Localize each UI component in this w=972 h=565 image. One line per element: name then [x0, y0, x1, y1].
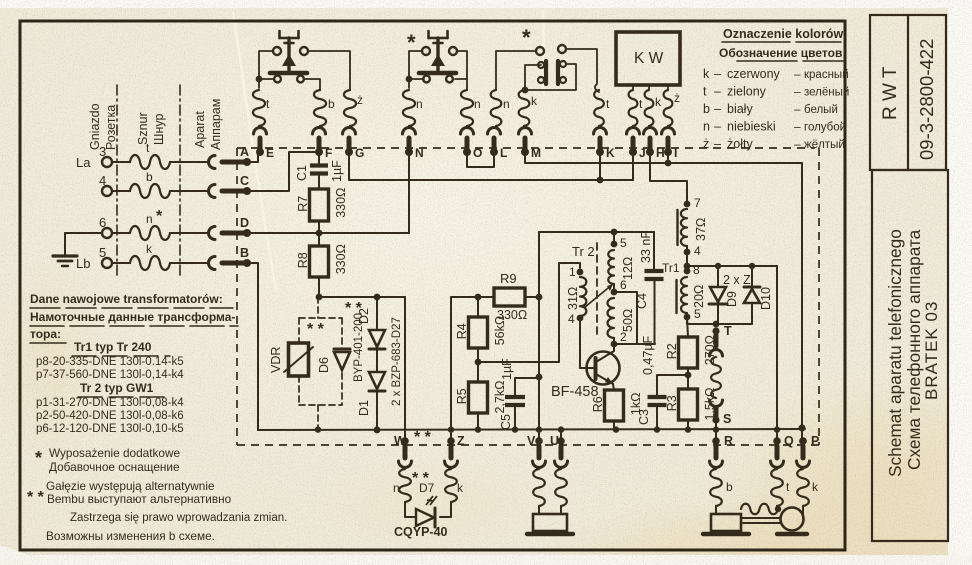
dashed apparatus boundary bottom [237, 444, 822, 446]
wire R4R5 junction to Tr2 pin1 [478, 263, 580, 362]
connector pin O [461, 128, 474, 135]
Tr1 pin7 [684, 201, 691, 208]
svg-text:–: – [714, 120, 721, 134]
wire left riser to Z [451, 297, 494, 441]
cord coil n at pin x=409 [403, 90, 415, 126]
svg-text:Шнур: Шнур [152, 114, 166, 145]
handset cord wavy [741, 504, 778, 514]
svg-text:C3: C3 [637, 409, 651, 425]
svg-text:N: N [415, 146, 424, 160]
svg-text:D6: D6 [317, 357, 331, 373]
svg-text:J: J [639, 146, 646, 160]
svg-text:31Ω: 31Ω [566, 287, 580, 310]
svg-text:56kΩ: 56kΩ [493, 316, 507, 346]
svg-text:A: A [240, 145, 249, 159]
svg-text:n: n [474, 97, 481, 111]
wire button right to coil t4 [566, 49, 599, 92]
svg-text:белый: белый [804, 104, 838, 116]
Tr2 winding pin6 [611, 289, 618, 296]
cord under U [555, 469, 567, 506]
cord b (line cord) [130, 184, 170, 198]
svg-text:Z: Z [457, 434, 465, 448]
svg-text:p7-37-560-DNE 130l-0,14-k4: p7-37-560-DNE 130l-0,14-k4 [36, 369, 184, 381]
svg-text:4: 4 [99, 173, 106, 188]
svg-text:t: t [703, 85, 707, 99]
dial box [538, 506, 540, 514]
wire A to E [247, 155, 258, 162]
schematic border frame [20, 21, 845, 550]
ringer KW box [616, 32, 680, 85]
plug pin D [243, 229, 251, 237]
svg-text:Q: Q [784, 434, 794, 448]
svg-text:Lb: Lb [76, 256, 90, 271]
capacitor C1 [318, 152, 320, 164]
wire zener bottoms to T [716, 323, 752, 325]
Tr1 winding 20R core [675, 280, 677, 313]
connector pin W [401, 437, 409, 445]
svg-text:Bembu выступают альтернативн: Bembu выступают альтернативно [47, 492, 232, 506]
cord t under Q [771, 469, 783, 506]
svg-text:n: n [503, 97, 510, 111]
connector pin K [594, 128, 607, 135]
cord T to S [711, 357, 721, 398]
plug pin B [243, 259, 251, 267]
svg-text:20Ω: 20Ω [692, 285, 706, 308]
svg-text:–: – [794, 67, 801, 81]
svg-text:D10: D10 [759, 287, 773, 310]
cord coil t at pin x=633 [629, 90, 638, 126]
wire pin6 bypass [614, 292, 637, 344]
svg-text:n: n [393, 481, 400, 495]
lower common rail [258, 429, 805, 430]
svg-text:niebieski: niebieski [727, 120, 776, 134]
connector pin I [662, 128, 675, 135]
wire V riser [538, 232, 540, 441]
wire S2 left contact to node [409, 51, 422, 74]
connector pin Z [447, 437, 455, 445]
Tr1 winding 37R [681, 209, 687, 246]
diode rail [687, 265, 777, 267]
button contact bars [544, 61, 548, 84]
svg-text:Аппарам: Аппарам [209, 99, 223, 150]
svg-text:BYP-401-200: BYP-401-200 [353, 313, 365, 382]
svg-text:Dane nawojowe transformatoró: Dane nawojowe transformatorów: [30, 292, 223, 306]
svg-text:p1-31-270-DNE 130l-0,08-k4: p1-31-270-DNE 130l-0,08-k4 [36, 397, 184, 409]
zener diode D2 [369, 330, 385, 347]
svg-text:D1: D1 [357, 400, 371, 416]
cord under V [533, 469, 545, 506]
wire S1 bar to coil b [305, 79, 320, 90]
connector pin P [799, 437, 807, 445]
svg-text:2 x BZP-683-D27: 2 x BZP-683-D27 [391, 317, 403, 406]
wire U riser [560, 429, 562, 441]
microphone [781, 508, 804, 531]
svg-text:ż: ż [357, 93, 363, 107]
svg-text:R W T: R W T [880, 66, 901, 120]
wire KW to coil k2 [648, 85, 650, 90]
wire KW to coil z2 [667, 85, 669, 90]
svg-text:зелёный: зелёный [804, 87, 849, 99]
svg-text:R6: R6 [591, 396, 605, 412]
svg-text:12Ω: 12Ω [621, 257, 635, 280]
wire k coil to M pin [523, 126, 525, 128]
connector socket row 3 [209, 156, 216, 169]
svg-text:2,7kΩ: 2,7kΩ [493, 381, 507, 414]
svg-text:–: – [794, 85, 801, 99]
svg-text:Добавочное оснащение: Добавочное оснащение [49, 460, 180, 474]
svg-text:C: C [240, 174, 249, 188]
svg-text:37Ω: 37Ω [694, 218, 708, 241]
svg-text:–: – [794, 102, 801, 116]
svg-text:K W: K W [634, 50, 664, 67]
resistor R2 [687, 317, 688, 337]
svg-text:b: b [703, 102, 710, 116]
svg-text:2 x Z: 2 x Z [723, 273, 751, 287]
svg-text:V: V [527, 434, 536, 448]
wire D2 branch [376, 297, 378, 330]
plug pin A [243, 158, 251, 166]
svg-text:n: n [416, 97, 423, 111]
svg-text:7: 7 [694, 196, 701, 210]
Tr1 pin5 [684, 314, 691, 321]
svg-text:Schemat aparatu telefonicznego: Schemat aparatu telefonicznego [885, 229, 905, 477]
wire S to R [715, 429, 717, 441]
svg-text:k: k [655, 95, 662, 109]
svg-text:Схема телефонного аппарата: Схема телефонного аппарата [904, 229, 924, 470]
resistor R7 [318, 174, 320, 189]
svg-text:biały: biały [727, 102, 753, 116]
wire K down [599, 152, 601, 180]
svg-text:5: 5 [99, 245, 106, 260]
svg-text:G: G [355, 146, 364, 160]
svg-text:k: k [146, 242, 153, 256]
svg-text:Намоточные данные трансформа: Намоточные данные трансформа- [30, 310, 235, 324]
dashed optional branch wiring [317, 297, 319, 318]
svg-text:k: k [457, 481, 464, 495]
wire B to lower rail [247, 263, 258, 430]
cord coil t at pin x=259 [253, 90, 265, 126]
cord coil b at pin x=320 [314, 90, 326, 126]
svg-text:b: b [726, 480, 733, 494]
svg-text:R4: R4 [455, 323, 469, 339]
svg-text:* *: * * [307, 321, 325, 338]
cord coil n at pin x=467 [461, 90, 473, 126]
cord coil k at pin x=649 [645, 90, 654, 126]
svg-text:I: I [674, 146, 677, 160]
svg-text:5: 5 [694, 307, 701, 321]
connector pin T [712, 327, 719, 334]
svg-text:* *: * * [414, 429, 432, 446]
svg-text:1µF: 1µF [330, 160, 344, 182]
svg-text:M: M [531, 146, 541, 160]
resistor R6 [605, 390, 624, 421]
svg-text:D9: D9 [725, 291, 739, 307]
svg-text:R2: R2 [665, 343, 679, 359]
transistor BF-458 [587, 352, 620, 385]
wire S1 right contact to coil z [308, 51, 350, 90]
svg-text:B: B [240, 246, 249, 260]
svg-text:S: S [723, 412, 731, 426]
capacitor C5 [515, 378, 536, 396]
wire M to I to P [525, 152, 802, 428]
svg-text:Tr 2: Tr 2 [572, 244, 595, 259]
svg-text:6: 6 [99, 215, 106, 230]
svg-text:R: R [724, 434, 733, 448]
Tr2 winding pin2 [611, 341, 618, 348]
connector pin V [535, 437, 543, 445]
Tr2 top rail [539, 231, 654, 233]
cord n* (line cord) [130, 226, 170, 240]
svg-text:8: 8 [693, 263, 700, 277]
Tr1 pin8 [684, 268, 691, 275]
connector pin S [712, 416, 719, 423]
svg-text:p2-50-420-DNE 130l-0,08-k6: p2-50-420-DNE 130l-0,08-k6 [36, 410, 184, 422]
svg-text:n: n [146, 212, 153, 226]
wire W riser [404, 297, 406, 441]
plug pin C [243, 187, 251, 195]
svg-text:тора:: тора: [30, 327, 61, 341]
svg-text:P: P [811, 434, 819, 448]
svg-text:Oznaczenie kolorów:: Oznaczenie kolorów: [723, 27, 847, 41]
cord k under P [797, 469, 809, 506]
cord coil n at pin x=496 [491, 90, 502, 126]
svg-text:Gałęzie występują alternatyw: Gałęzie występują alternatywnie [46, 479, 215, 493]
resistor R3 [687, 375, 689, 389]
svg-text:C1: C1 [295, 165, 309, 181]
svg-text:R7: R7 [296, 196, 310, 212]
svg-text:F: F [325, 146, 332, 160]
svg-text:*: * [156, 208, 163, 225]
connector pin H [644, 128, 657, 135]
svg-text:czerwony: czerwony [727, 67, 781, 81]
svg-text:4: 4 [568, 312, 575, 326]
wire pin4 to base [580, 318, 592, 368]
resistor R9 [494, 288, 525, 306]
svg-text:BRATEK 03: BRATEK 03 [922, 301, 941, 400]
cord n under W [399, 469, 411, 502]
title block name box [872, 170, 948, 541]
wire P rail join [798, 424, 805, 431]
cord coil ż at pin x=668 [664, 90, 673, 126]
varistor VDR [289, 343, 309, 376]
wire N down [408, 152, 410, 233]
svg-text:K: K [606, 146, 615, 160]
hook switch S2 lever [429, 37, 448, 40]
Tr1 winding 20R [681, 277, 687, 313]
zener diode D1 [369, 372, 385, 389]
svg-text:L: L [500, 146, 507, 160]
cord coil k at pin x=524 [519, 90, 530, 126]
svg-text:0,47µF: 0,47µF [641, 335, 655, 375]
Tr2 winding 31R pin1 [577, 269, 584, 276]
svg-text:–: – [714, 67, 721, 81]
resistor R5 [477, 362, 479, 382]
Tr2 winding 31R pin4 [577, 315, 584, 322]
svg-text:CQYP-40: CQYP-40 [394, 525, 448, 539]
svg-text:Обозначение цветов:: Обозначение цветов: [719, 46, 846, 60]
svg-text:–: – [714, 102, 721, 116]
svg-text:*: * [522, 25, 531, 50]
wire KW to coil t3 [632, 85, 634, 90]
zener diode D9 [717, 266, 719, 287]
svg-text:Aparat: Aparat [193, 111, 207, 148]
Tr1 winding 37R core [676, 210, 678, 245]
svg-text:1: 1 [569, 265, 576, 279]
cord coil ż at pin x=350 [344, 90, 356, 126]
wire pin4 to diode rail [686, 252, 688, 266]
zener diode D10 [751, 266, 753, 287]
wire pin5 to T branch [687, 317, 716, 324]
svg-text:C4: C4 [635, 293, 649, 309]
svg-text:C5: C5 [499, 414, 513, 430]
connector pin M [519, 128, 532, 135]
connector pin L [488, 128, 501, 135]
svg-text:zielony: zielony [727, 85, 767, 99]
cord coil t at pin x=599 [594, 90, 604, 126]
svg-text:жёлтый: жёлтый [804, 139, 845, 151]
svg-text:k: k [812, 480, 819, 494]
wire I down [667, 152, 669, 163]
wire G K J common [349, 152, 633, 180]
svg-text:k: k [703, 67, 710, 81]
terminal 4 row [102, 186, 112, 196]
diode D6 [334, 348, 350, 351]
svg-text:Tr 2 typ GW1: Tr 2 typ GW1 [80, 381, 154, 395]
svg-text:Gniazdo: Gniazdo [88, 103, 102, 150]
svg-text:La: La [76, 155, 91, 170]
svg-text:n: n [703, 120, 710, 134]
cord k (line cord) [130, 256, 170, 270]
svg-text:4: 4 [694, 244, 701, 258]
capacitor C3 [657, 375, 688, 396]
connector pin J [627, 128, 640, 135]
svg-text:09-3-2800-422: 09-3-2800-422 [916, 39, 937, 160]
svg-text:2: 2 [620, 330, 627, 344]
button contacts upper right circle [558, 45, 566, 53]
dashed apparatus boundary right [818, 148, 820, 445]
svg-text:b: b [146, 170, 153, 184]
BF-458 collector [596, 344, 614, 362]
svg-text:1µF: 1µF [500, 358, 514, 380]
cord t (line cord) [130, 155, 170, 169]
Tr2 core dashed [596, 243, 598, 338]
svg-text:D: D [240, 216, 249, 230]
connector pin N [403, 128, 416, 135]
svg-text:ż: ż [674, 91, 680, 105]
receiver earpiece [715, 506, 717, 514]
svg-text:Tr1: Tr1 [662, 261, 680, 275]
svg-text:k: k [531, 94, 538, 108]
connector pin E [254, 128, 267, 135]
svg-text:–: – [714, 85, 721, 99]
Tr2 winding 12R pin5 [613, 232, 615, 244]
svg-text:330Ω: 330Ω [334, 188, 348, 218]
wire H to Tr1 pin7 [650, 152, 687, 203]
connector socket row 4 [209, 185, 216, 198]
svg-text:T: T [724, 324, 732, 338]
svg-text:6: 6 [620, 278, 627, 292]
wire O L bridge [467, 152, 494, 167]
cord k under Z [445, 469, 457, 502]
Tr2 winding 50R [608, 298, 615, 338]
button contacts upper left circle [536, 47, 544, 55]
svg-text:O: O [473, 146, 482, 160]
ground symbol [65, 233, 102, 256]
svg-text:VDR: VDR [269, 347, 283, 373]
resistor R8 [318, 233, 320, 246]
svg-text:–: – [794, 137, 801, 151]
svg-text:*: * [35, 448, 42, 468]
svg-text:* *: * * [27, 489, 45, 506]
dashed apparatus boundary top [237, 147, 815, 149]
svg-text:Wyposażenie dodatkowe: Wyposażenie dodatkowe [49, 446, 180, 460]
column separator line 2 [179, 85, 181, 278]
svg-text:голубой: голубой [804, 122, 846, 134]
svg-text:Zastrzega się prawo wprowad: Zastrzega się prawo wprowadzania zmian. [70, 512, 287, 524]
hook switch S1 upper contacts [273, 47, 281, 55]
Tr2 winding 12R [608, 250, 614, 284]
resistor R4 [477, 297, 479, 317]
wire Q rail join [776, 429, 778, 441]
svg-text:–: – [794, 120, 801, 134]
svg-text:p8-20-335-DNE 130l-0.14-k5: p8-20-335-DNE 130l-0.14-k5 [36, 356, 184, 368]
Tr2 winding 31R [580, 277, 586, 316]
svg-text:3: 3 [99, 144, 106, 159]
svg-text:b: b [328, 97, 335, 111]
wire R8 to W riser rail [319, 296, 405, 298]
svg-text:E: E [266, 146, 274, 160]
wire Q riser [776, 266, 778, 441]
svg-text:ż: ż [703, 137, 709, 151]
BF-458 emitter [596, 374, 613, 384]
BF-458 base wire [580, 367, 594, 369]
dashed apparatus boundary left [236, 148, 238, 445]
connector socket row 5 [209, 257, 216, 270]
connector pin F [313, 128, 326, 135]
svg-text:R9: R9 [500, 271, 517, 286]
svg-text:Tr1 typ Tr 240: Tr1 typ Tr 240 [74, 340, 152, 354]
svg-text:50Ω: 50Ω [621, 309, 635, 332]
svg-text:красный: красный [804, 69, 849, 81]
svg-text:R8: R8 [296, 252, 310, 268]
wire S2 bar to coil n2 [455, 78, 467, 80]
svg-text:R3: R3 [665, 395, 679, 411]
svg-text:żołty: żołty [727, 137, 753, 151]
title block RWT box [870, 15, 946, 170]
hook switch S1 lever [280, 37, 299, 40]
svg-text:330Ω: 330Ω [334, 244, 348, 274]
svg-text:H: H [656, 146, 665, 160]
wire pin2 node [614, 343, 655, 345]
svg-text:D7: D7 [419, 481, 435, 495]
Tr2 adjust arrow [585, 284, 613, 307]
column separator line 1 [116, 85, 118, 278]
connector pin Q [773, 437, 781, 445]
svg-text:33 nF: 33 nF [639, 231, 653, 263]
wire k to microphone [802, 506, 804, 518]
svg-text:R5: R5 [455, 388, 469, 404]
svg-text:p6-12-120-DNE 130l-0,10-k5: p6-12-120-DNE 130l-0,10-k5 [36, 423, 184, 435]
wire D row to N [247, 232, 409, 234]
svg-text:U: U [550, 434, 559, 448]
capacitor C4 [653, 232, 655, 270]
svg-text:–: – [714, 137, 721, 151]
connector pin R [712, 437, 720, 445]
svg-text:Возможны изменения b схеме.: Возможны изменения b схеме. [46, 529, 215, 543]
connector socket row 6 [209, 227, 216, 240]
diode D7 [405, 502, 416, 517]
hook switch S2 upper contacts [422, 47, 430, 55]
